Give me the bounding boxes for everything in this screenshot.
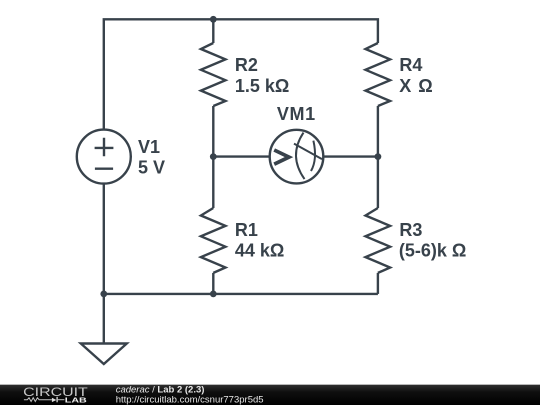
node dot bottom-left (100, 291, 107, 298)
resistor R1 (201, 208, 226, 273)
logo diode (52, 398, 57, 402)
svg-text:LAB: LAB (65, 396, 88, 405)
node dot top (210, 16, 217, 23)
svg-text:R1: R1 (235, 220, 258, 240)
svg-text:http://circuitlab.com/csnur773: http://circuitlab.com/csnur773pr5d5 (116, 395, 264, 405)
wire bottom rail (104, 293, 378, 295)
voltage source V1 (77, 130, 131, 184)
wire V1 bottom lead (103, 184, 105, 294)
node dot middle-left (210, 153, 217, 160)
wire right column R4-R3 (377, 106, 379, 208)
wire R1 bottom lead (212, 273, 214, 294)
svg-text:V1: V1 (138, 137, 160, 157)
wire VM1 right lead (323, 155, 378, 157)
svg-text:1.5 kΩ: 1.5 kΩ (235, 76, 289, 96)
wire R2 top lead (212, 19, 214, 43)
svg-text:R2: R2 (235, 55, 258, 75)
svg-text:R3: R3 (399, 220, 422, 240)
svg-text:VM1: VM1 (277, 104, 316, 124)
wire R3 bottom lead (377, 273, 379, 294)
node dot bottom-middle (210, 291, 217, 298)
resistor R2 (201, 43, 226, 106)
svg-text:X Ω: X Ω (399, 76, 433, 96)
svg-text:44 kΩ: 44 kΩ (235, 241, 284, 261)
voltmeter VM1 (270, 130, 324, 184)
wire VM1 left lead (213, 155, 269, 157)
wire ground stem (103, 294, 105, 344)
resistor R4 (366, 43, 391, 106)
svg-text:5 V: 5 V (138, 157, 165, 177)
wire top rail with corners (104, 19, 378, 129)
node dot middle-right (375, 153, 382, 160)
resistor R3 (366, 208, 391, 273)
logo resistor zigzag (24, 398, 52, 402)
svg-text:R4: R4 (399, 55, 422, 75)
wire middle column R2-R1 (212, 106, 214, 208)
ground symbol (81, 344, 127, 365)
svg-text:(5-6)k Ω: (5-6)k Ω (399, 241, 466, 261)
